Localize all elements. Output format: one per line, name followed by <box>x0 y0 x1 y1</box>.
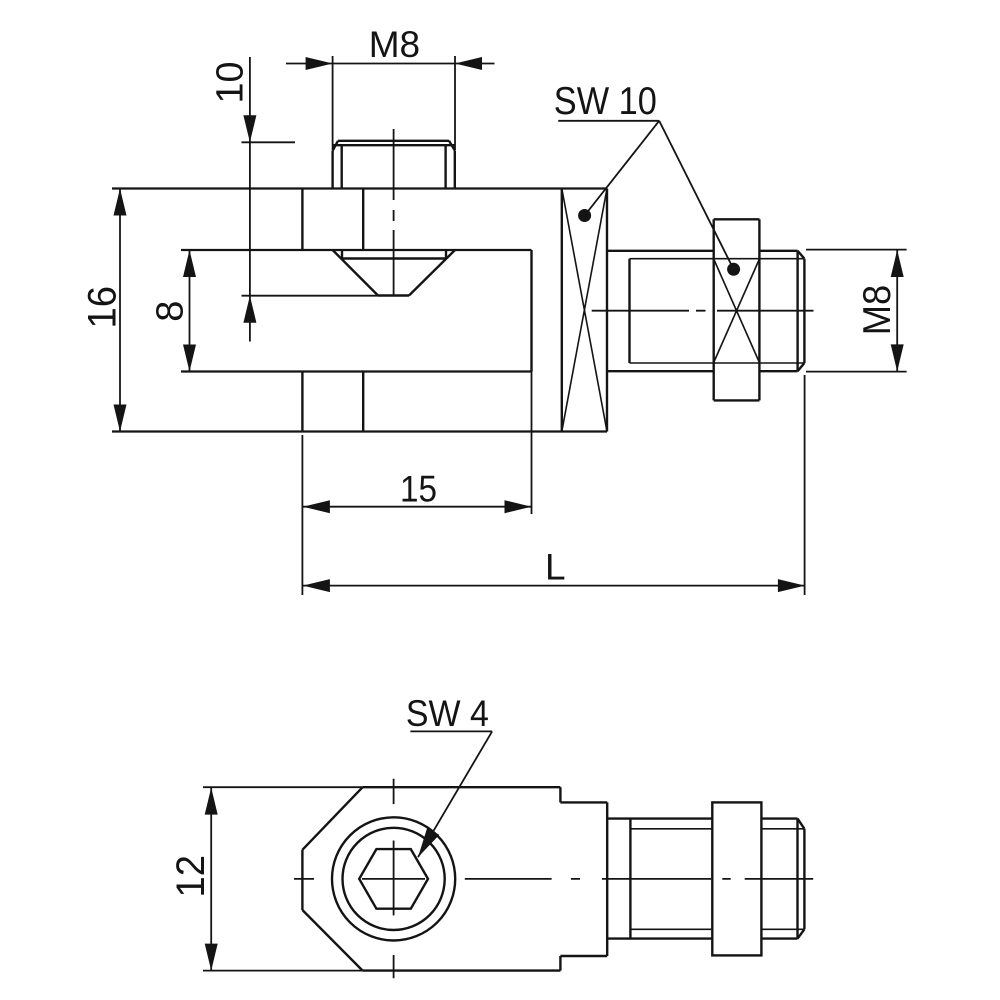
thread minor bottom line <box>630 362 805 364</box>
stud axis centerline (bottom view) <box>294 878 813 880</box>
stud outer bottom line <box>759 370 797 372</box>
dimension 15/L: right extension line of 15 <box>531 372 533 515</box>
block right edge upper <box>559 787 561 802</box>
screw axis centerline <box>393 129 395 297</box>
svg-text:M8: M8 <box>856 285 899 336</box>
thread minor bottom line (bottom view) <box>630 928 804 930</box>
stud end face edge <box>803 259 805 363</box>
svg-text:SW 4: SW 4 <box>406 693 489 734</box>
text labels top view <box>80 24 899 587</box>
nut rectangle (bottom view) <box>712 802 761 955</box>
dimension M8 top: dim line <box>286 63 495 65</box>
arrow M8 top right (outside, pointing left) <box>455 57 482 70</box>
arrow 12 down <box>205 944 218 971</box>
flange tab right edge <box>606 802 608 956</box>
block chamfer top-left <box>302 787 362 850</box>
countersink screw small rect right <box>445 250 447 259</box>
dimension M8 right: bottom extension line <box>806 371 907 373</box>
block top edge <box>363 786 561 788</box>
svg-text:L: L <box>545 546 566 587</box>
dimension 8: dim line <box>189 250 191 372</box>
screw head outer circle <box>332 817 455 940</box>
neck thread outer top (bottom view) <box>607 817 712 819</box>
dimension 12: bottom extension line <box>203 970 363 972</box>
arrowheads and dots top view <box>114 57 904 592</box>
dimensions top view <box>120 56 907 595</box>
body bottom edge <box>112 430 607 432</box>
screw head left inner flat line <box>341 145 343 188</box>
slot top line <box>181 249 532 251</box>
screw head chamfer circle <box>343 828 445 930</box>
neck thread outer top line <box>607 250 714 252</box>
dimension 12: top extension line <box>203 786 363 788</box>
leader dot on nut <box>727 263 740 276</box>
svg-text:SW 10: SW 10 <box>554 80 657 123</box>
block chamfer bottom-left <box>302 910 362 971</box>
nut bottom edge <box>714 399 760 401</box>
arrow 10 top (outside, pointing down) <box>243 115 256 142</box>
nut diagonal 2 <box>714 259 760 363</box>
stud outer top line <box>759 250 797 252</box>
countersink cone flat bottom <box>378 294 409 296</box>
dimension M8 top: left witness line <box>332 56 334 150</box>
nut top edge <box>714 218 760 220</box>
dimension L: right extension line <box>804 375 806 595</box>
screw head left outer edge <box>331 151 333 189</box>
svg-text:10: 10 <box>209 62 251 104</box>
dimension 15: dim line <box>303 506 532 508</box>
svg-text:8: 8 <box>149 301 191 322</box>
hex flange left edge <box>561 189 563 432</box>
arrow M8 top left (outside, pointing right) <box>306 57 333 70</box>
countersink screw small rect bottom <box>342 257 446 259</box>
flange tab top edge <box>560 801 607 803</box>
svg-text:15: 15 <box>400 468 437 509</box>
block right edge lower <box>559 956 561 971</box>
stud end face edge (bottom view) <box>803 829 805 930</box>
label SW10: leader to nut <box>659 121 733 269</box>
dimension 15: left extension line <box>301 435 303 514</box>
countersink cone right slant <box>409 250 455 296</box>
centerlines top view <box>394 129 814 311</box>
leader dot on flange <box>578 209 591 222</box>
stud outer top (bottom view) <box>761 817 797 819</box>
hex flange diagonal 2 <box>562 189 607 432</box>
thread runout edge (bottom view) <box>629 819 631 939</box>
arrow SW4 leader <box>418 828 439 857</box>
centerlines bottom view <box>294 779 813 978</box>
arrow 16 up <box>114 189 127 216</box>
arrow M8 right bottom <box>891 344 904 371</box>
arrow 12 up <box>205 788 218 815</box>
thread minor top line (bottom view) <box>630 828 804 830</box>
arrow L right <box>778 579 805 592</box>
thread runout edge <box>628 259 630 363</box>
label SW4: leader line <box>418 731 492 857</box>
screw head hex top face <box>338 140 449 142</box>
arrow 15 left <box>303 500 330 513</box>
thread minor top line <box>630 258 805 260</box>
stud chamfer bottom slant (bottom view) <box>798 929 805 938</box>
block bottom edge <box>363 969 561 971</box>
screw head right inner flat line <box>444 145 446 188</box>
dimension M8 right: dim line <box>896 250 898 371</box>
stud chamfer top slant (bottom view) <box>798 819 805 829</box>
arrow L left <box>303 579 330 592</box>
arrow 10 bottom (outside, pointing up) <box>243 296 256 323</box>
arrow 15 right <box>505 500 532 513</box>
arrow 8 down <box>183 345 196 372</box>
dimension 10: dim line <box>249 57 251 342</box>
flange tab bottom edge <box>560 955 607 957</box>
label SW4: underline <box>410 730 492 732</box>
dimension M8 right: top extension line <box>806 249 907 251</box>
chamfer projection upper edge <box>362 189 364 251</box>
socket vertical centerline <box>393 779 395 978</box>
arrow M8 right top <box>891 250 904 277</box>
neck thread outer bottom (bottom view) <box>607 937 712 939</box>
dimension L: dim line <box>303 585 805 587</box>
stud outer bottom (bottom view) <box>761 937 797 939</box>
arrow 8 up <box>183 250 196 277</box>
dimension 12: dim line <box>210 788 212 971</box>
svg-text:12: 12 <box>169 855 213 898</box>
stud axis centerline <box>592 310 814 312</box>
stud chamfer top slant <box>798 251 805 259</box>
hex flange right edge <box>606 189 608 432</box>
screw head left chamfer slant <box>333 141 338 151</box>
neck thread outer bottom line <box>607 370 714 372</box>
block left face <box>301 850 303 910</box>
dimensions bottom view <box>203 731 492 970</box>
body left face lower edge <box>301 372 303 432</box>
stud outer end edge (bottom view) <box>796 819 798 939</box>
svg-text:16: 16 <box>80 286 124 329</box>
body top edge <box>112 187 607 189</box>
nut left edge <box>713 219 715 400</box>
nut diagonal 1 <box>714 259 760 363</box>
arrow 16 down <box>114 405 127 432</box>
dimension M8 top: right witness line <box>454 56 456 150</box>
chamfer projection lower edge <box>362 372 364 432</box>
dimension 10: bottom extension line <box>242 295 379 297</box>
countersink cone left slant <box>333 250 378 296</box>
stud chamfer bottom slant <box>798 363 805 371</box>
body left face upper edge <box>301 189 303 251</box>
dimension 10: top extension tick <box>242 141 296 143</box>
svg-text:M8: M8 <box>369 24 420 65</box>
screw head chamfer line <box>333 144 455 146</box>
screw head right outer edge <box>454 151 456 189</box>
dimension L: left extension line <box>301 514 303 595</box>
screw head right chamfer slant <box>449 141 455 151</box>
dimension 16: dim line <box>119 189 121 432</box>
hex flange diagonal 1 <box>562 189 607 432</box>
hex socket SW4 <box>359 849 428 909</box>
slot end edge <box>530 250 532 372</box>
slot bottom line <box>181 370 532 372</box>
label SW10: leader to flange <box>585 121 660 216</box>
label SW10: underline <box>558 120 659 122</box>
stud outer end edge <box>796 251 798 371</box>
nut right edge <box>758 219 760 400</box>
countersink screw small rect left <box>341 250 343 259</box>
